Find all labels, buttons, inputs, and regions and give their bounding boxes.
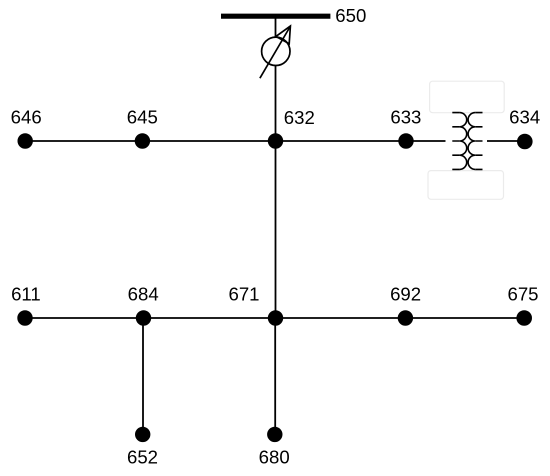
wire 632-671 [275, 141, 277, 318]
node 675 [516, 310, 532, 326]
bus 650 bar [221, 14, 330, 19]
svg-text:675: 675 [507, 283, 538, 304]
svg-text:646: 646 [11, 107, 42, 128]
wire row 611-675 [25, 317, 524, 319]
svg-text:645: 645 [127, 107, 158, 128]
svg-text:611: 611 [11, 283, 41, 304]
wire row 646-633-transformer [25, 140, 446, 142]
node 645 [135, 133, 150, 148]
svg-text:652: 652 [127, 446, 158, 467]
svg-text:634: 634 [509, 107, 540, 128]
node 633 [398, 133, 413, 148]
regulator circle [262, 37, 290, 65]
svg-text:684: 684 [128, 283, 159, 304]
wire 671-680 [274, 318, 276, 434]
node 652 [135, 427, 150, 442]
transformer XFM-1 left winding [460, 113, 467, 170]
svg-text:680: 680 [259, 446, 290, 467]
wire 650-632 [275, 18, 277, 141]
node 634 [517, 134, 533, 150]
node 632 [268, 133, 283, 148]
node 684 [136, 310, 151, 325]
transformer bounding box (faint) [430, 81, 505, 113]
svg-text:692: 692 [390, 283, 421, 304]
regulator arrow [260, 27, 290, 79]
svg-text:633: 633 [390, 107, 421, 128]
node 671 [268, 310, 283, 325]
wire 684-652 [142, 318, 144, 434]
node 646 [18, 133, 33, 148]
transformer XFM-1 right winding [468, 113, 475, 170]
node 611 [17, 310, 32, 325]
node 680 [267, 427, 282, 442]
svg-text:632: 632 [284, 107, 315, 128]
node 692 [398, 310, 413, 325]
svg-text:671: 671 [228, 283, 259, 304]
svg-text:650: 650 [335, 5, 366, 26]
wire transformer-634 [487, 140, 525, 142]
